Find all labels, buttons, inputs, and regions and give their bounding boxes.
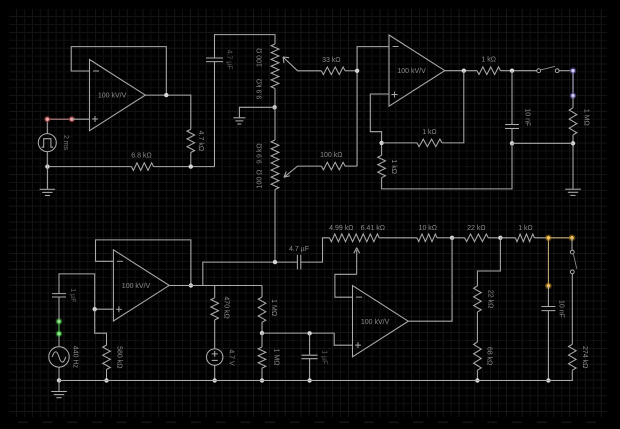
svg-text:100 Ω: 100 Ω — [256, 48, 263, 67]
svg-text:22 kΩ: 22 kΩ — [486, 290, 493, 308]
svg-text:1 MΩ: 1 MΩ — [270, 299, 277, 316]
svg-text:4.7 kΩ: 4.7 kΩ — [197, 131, 204, 151]
svg-text:100 kΩ: 100 kΩ — [320, 152, 342, 159]
svg-text:4.7 µF: 4.7 µF — [289, 246, 309, 253]
svg-text:100 kV/V: 100 kV/V — [98, 93, 127, 100]
svg-text:580 kΩ: 580 kΩ — [115, 346, 122, 368]
svg-text:100 Ω: 100 Ω — [256, 170, 263, 189]
svg-text:2 ms: 2 ms — [62, 135, 69, 151]
svg-text:10 nF: 10 nF — [524, 108, 531, 126]
svg-text:4.7 V: 4.7 V — [228, 349, 235, 366]
svg-text:1 kΩ: 1 kΩ — [481, 57, 496, 64]
svg-text:1 MΩ: 1 MΩ — [582, 109, 589, 126]
svg-text:22 kΩ: 22 kΩ — [467, 225, 485, 232]
svg-text:274 kΩ: 274 kΩ — [581, 346, 588, 368]
svg-text:1 MΩ: 1 MΩ — [273, 349, 280, 366]
svg-text:9.9 kΩ: 9.9 kΩ — [256, 79, 263, 99]
svg-text:4.99 kΩ: 4.99 kΩ — [329, 225, 353, 232]
svg-text:440 Hz: 440 Hz — [72, 346, 79, 369]
svg-text:470 kΩ: 470 kΩ — [222, 296, 229, 318]
svg-text:33 kΩ: 33 kΩ — [322, 57, 340, 64]
svg-text:1 µF: 1 µF — [321, 350, 328, 364]
svg-text:10 kΩ: 10 kΩ — [419, 225, 437, 232]
svg-text:9.9 kΩ: 9.9 kΩ — [256, 143, 263, 163]
svg-text:10 nF: 10 nF — [557, 300, 564, 318]
svg-text:6.8 kΩ: 6.8 kΩ — [131, 153, 151, 160]
svg-text:100 kV/V: 100 kV/V — [122, 283, 151, 290]
svg-text:4.7 µF: 4.7 µF — [226, 50, 233, 70]
svg-text:100 kV/V: 100 kV/V — [361, 319, 390, 326]
svg-text:1 µF: 1 µF — [69, 288, 76, 302]
svg-text:100 kV/V: 100 kV/V — [397, 68, 426, 75]
svg-text:6.41 kΩ: 6.41 kΩ — [361, 225, 385, 232]
svg-text:68 kΩ: 68 kΩ — [485, 347, 492, 365]
svg-text:1 kΩ: 1 kΩ — [422, 129, 437, 136]
svg-text:1 kΩ: 1 kΩ — [390, 159, 397, 174]
svg-text:1 kΩ: 1 kΩ — [518, 225, 533, 232]
